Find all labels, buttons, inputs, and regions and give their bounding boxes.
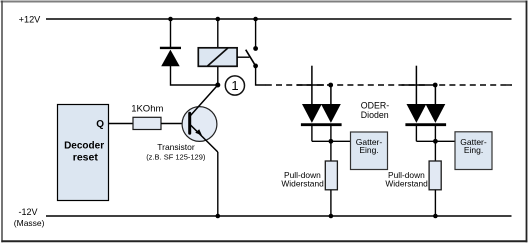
diode D1 flyback diode across relay coil [160, 48, 181, 66]
junction: emitter at -12V rail [216, 214, 221, 219]
wire: +12V rail down to relay coil [217, 19, 219, 48]
svg-text:(Masse): (Masse) [14, 218, 45, 228]
wire: bus junction down to diode D5 [434, 85, 436, 105]
diode D3 (OR diode, right of pair 1) [321, 104, 341, 123]
wire: anode stub above bus to diode D2 (left pair) [311, 66, 313, 105]
wire: anode stub above bus to diode D4 (right pair) [415, 66, 417, 105]
svg-text:Transistor: Transistor [157, 142, 195, 152]
junction: +12V rail at relay coil [216, 17, 221, 22]
wire: resistor R3 to -12V rail [434, 190, 436, 216]
label Pull-down Widerstand (right) [385, 170, 428, 189]
wire: Q output to resistor R1 [109, 123, 134, 125]
svg-text:(z.B. SF 125-129): (z.B. SF 125-129) [146, 153, 206, 162]
wire: resistor R2 to -12V rail [330, 190, 332, 216]
junction: bus at diode D3 (left pair) [328, 83, 333, 88]
gate input box (right): Gatter-Eing. [455, 132, 492, 170]
relay coil K1 [198, 48, 237, 67]
diode D5 (OR diode, right of pair 2) [426, 104, 446, 123]
wire: transistor emitter down to -12V rail [217, 152, 219, 216]
svg-text:Q: Q [96, 119, 104, 130]
relay switch contact S1 (normally open) [237, 46, 258, 68]
wire: cathode bar pair 1 to gate input node [312, 126, 351, 161]
svg-text:Decoder: Decoder [64, 140, 104, 151]
svg-text:Widerstand: Widerstand [385, 179, 428, 189]
junction: gate-input node (pair 1) [329, 139, 334, 144]
resistor R1 1KOhm [133, 117, 161, 129]
resistor R2 pull-down (left) [325, 161, 337, 190]
wire: cathode bar pair 2 to gate input node [416, 126, 455, 161]
wire: bus junction down to diode D3 [330, 85, 332, 105]
diode D4 (OR diode, left of pair 2) [407, 104, 427, 123]
svg-text:Widerstand: Widerstand [281, 179, 324, 189]
svg-text:Eing.: Eing. [464, 145, 483, 155]
svg-text:-12V: -12V [19, 207, 38, 217]
junction: R3 at -12V rail [433, 214, 438, 219]
wire: switch moving contact to dashed bus [256, 66, 266, 85]
junction: node 1 (collector / diode / relay coil) [215, 83, 220, 88]
transistor Q1 NPN (z.B. SF 125-129) [182, 85, 218, 152]
wire: +12V rail down to diode D1 cathode [170, 19, 172, 47]
wire: +12V rail down to switch fixed contact [255, 19, 257, 49]
svg-text:1KOhm: 1KOhm [131, 104, 163, 115]
dashed bus: node 1 line to OR-diode inputs [266, 84, 512, 86]
net -12V Masse (bottom rail) [14, 207, 512, 228]
svg-text:Eing.: Eing. [359, 145, 378, 155]
svg-text:1: 1 [231, 78, 238, 93]
junction: +12V rail at diode D1 [168, 17, 173, 22]
net +12V (top supply rail) [19, 15, 512, 25]
decoder block U1: Decoder reset [58, 105, 109, 201]
junction: R2 at -12V rail [329, 214, 334, 219]
wire: resistor R1 to transistor base [161, 123, 188, 125]
svg-text:+12V: +12V [19, 15, 42, 25]
resistor R3 pull-down (right) [429, 161, 441, 190]
common cathode bar of pair 1 [301, 123, 342, 126]
label ODER-Dioden [361, 101, 389, 120]
svg-text:Dioden: Dioden [361, 110, 389, 120]
junction: gate-input node (pair 2) [433, 139, 438, 144]
svg-text:reset: reset [73, 151, 99, 163]
label Pull-down Widerstand (left) [281, 170, 324, 189]
wire: relay coil bottom to node 1 junction [217, 67, 219, 85]
label Transistor (z.B. SF 125-129) [146, 142, 206, 162]
diode D2 (OR diode, left of pair 1) [302, 104, 322, 123]
node label 1 (circled) [225, 76, 244, 95]
gate input box (left): Gatter-Eing. [351, 132, 388, 170]
junction: +12V rail at switch contact [253, 17, 258, 22]
common cathode bar of pair 2 [405, 123, 446, 126]
junction: bus at diode D5 (right pair) [433, 83, 438, 88]
wire: diode D1 anode to node 1 junction [171, 66, 218, 85]
